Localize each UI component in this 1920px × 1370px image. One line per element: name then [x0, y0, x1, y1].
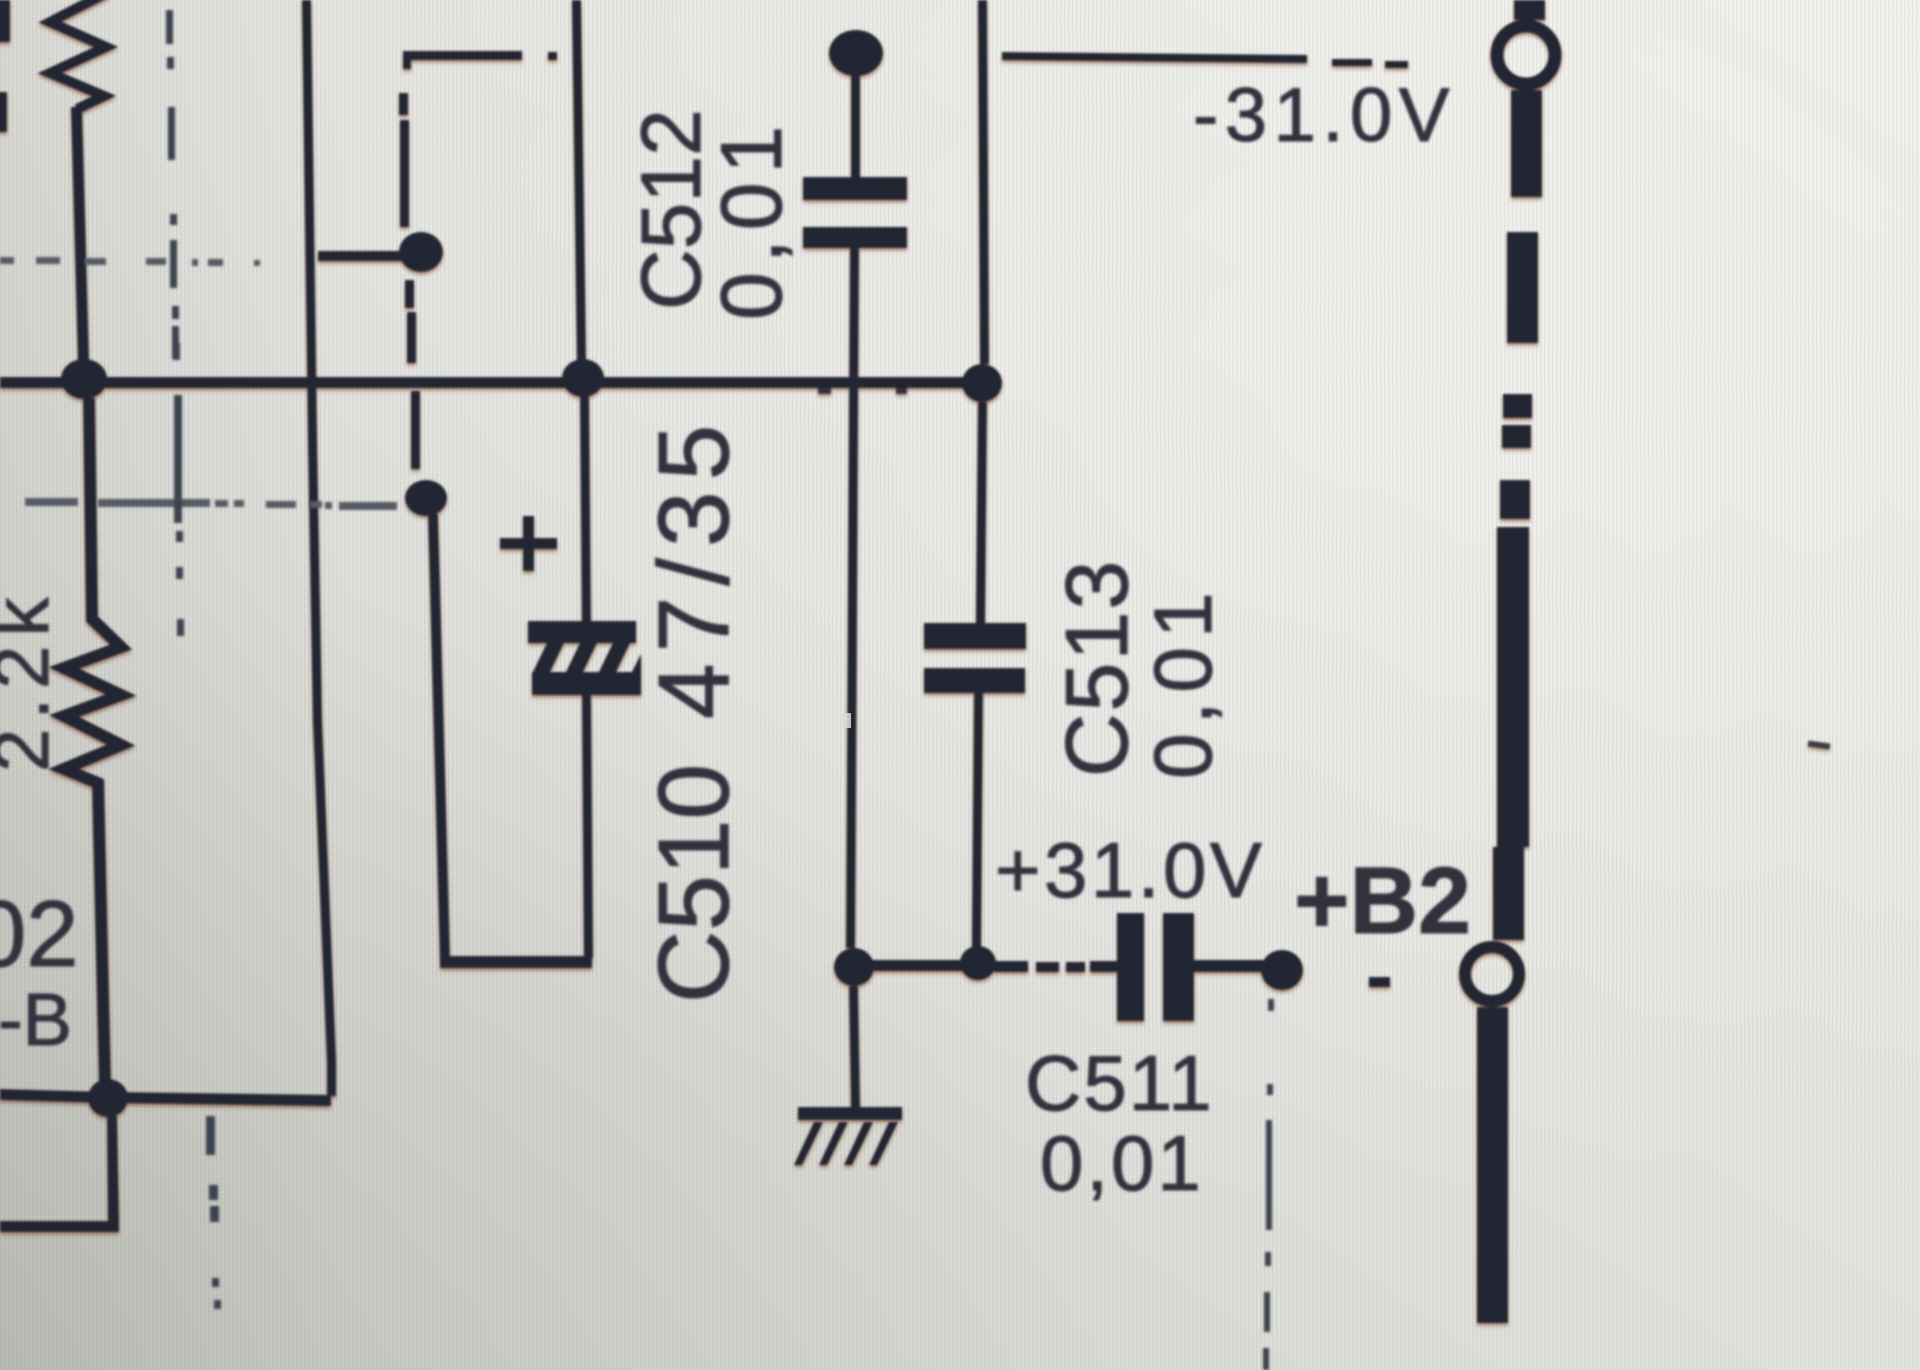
- capacitor C512 plates: [803, 177, 907, 200]
- wire: lead from top-left resistor down to bus junction: [71, 107, 89, 362]
- plus sign of C510: [500, 538, 557, 549]
- wire notch artifact on C512 leg: [842, 713, 851, 728]
- speck tick right side: [1808, 740, 1831, 749]
- resistor R-topleft (partial zigzag): [50, 0, 108, 109]
- wire: small stubs below bus near C512 leg: [818, 383, 831, 394]
- wire: J9 to C512: [851, 74, 860, 178]
- svg-text:2.2k: 2.2k: [0, 589, 65, 772]
- wire: C511 to J10: [1194, 960, 1264, 972]
- node J4: junction dot upper: [399, 232, 443, 272]
- wire: bottom-left horizontal: [0, 1089, 331, 1106]
- label minus tick near +B2: [1369, 977, 1390, 987]
- capacitor C510 hatched plate: [533, 643, 564, 672]
- left-edge clipped glyph fragments: [0, 0, 10, 42]
- dash-dot vertical x~170: [166, 10, 173, 44]
- svg-text:+31.0V: +31.0V: [995, 826, 1265, 914]
- wire: stub into J4 from left: [318, 251, 402, 261]
- dash-dot vertical x~210 (bottom left): [206, 1116, 215, 1155]
- node J8: ground-net junction (C512 leg): [834, 948, 874, 986]
- wire: dashed vertical segments x~405: [399, 93, 408, 115]
- wire: dash-dot corner at top (408,55): [403, 51, 522, 69]
- node J3: junction dot on dashed net: [405, 480, 447, 516]
- wire: J2 down to C510: [580, 395, 591, 623]
- svg-text:02: 02: [0, 881, 79, 986]
- wire: J7 to C511 (broken): [994, 961, 1028, 972]
- wire: J8 to J7: [870, 960, 964, 971]
- dash-dot horizontal y~502: [25, 498, 78, 506]
- svg-text:47/35: 47/35: [638, 414, 750, 719]
- wire: bottom corner horizontal of C510 loop: [440, 956, 592, 968]
- node J9: top dot of C512: [829, 30, 883, 76]
- ground symbol: [849, 986, 860, 1107]
- node J6: bus junction right: [962, 364, 1002, 402]
- node J10: +B2 net endpoint dot: [1261, 950, 1303, 990]
- dash-dot horizontal y~260: [0, 257, 14, 264]
- svg-text:0,01: 0,01: [704, 117, 800, 320]
- wire: below J5 down & left to edge: [0, 1116, 119, 1232]
- capacitor C510 (electrolytic) top plate: [528, 621, 636, 643]
- resistor R 2.2k zigzag: [64, 398, 121, 1082]
- node J5: resistor bottom junction: [88, 1079, 128, 1117]
- svg-text:C511: C511: [1025, 1039, 1214, 1127]
- svg-text:-31.0V: -31.0V: [1193, 73, 1456, 158]
- wire: long vertical line V2: [302, 0, 336, 1096]
- svg-text:0,01: 0,01: [1040, 1119, 1204, 1207]
- dashed vertical below J10 x~1268: [1268, 999, 1274, 1011]
- node J7: ground-net junction (C513 leg): [960, 946, 996, 980]
- wire: vertical line V1 from top edge to J2: [572, 0, 586, 362]
- svg-text:-B: -B: [0, 978, 72, 1061]
- terminal circle +B2: [1465, 947, 1519, 1001]
- svg-text:C513: C513: [1047, 559, 1146, 777]
- wire: C512 down through bus to J8: [846, 248, 859, 948]
- wire: left vertical of C510 loop from J3 down: [428, 514, 450, 960]
- terminal circle top (-31.0V): [1497, 26, 1555, 84]
- capacitor C513 plates: [924, 623, 1026, 649]
- wire: C513 down to J7: [972, 693, 983, 948]
- node J1: bus-left junction dot: [61, 359, 107, 399]
- node J2: bus junction at C510 branch: [562, 359, 604, 397]
- wire: thin top border line right section: [1002, 52, 1307, 63]
- capacitor C511 plates: [1117, 913, 1144, 1021]
- wire: thick right bus segments: [1514, 0, 1545, 20]
- wire: vertical line V3 from top to J6: [978, 0, 989, 364]
- wire: main horizontal bus: [0, 377, 988, 388]
- wire: C510 bottom lead down: [582, 695, 593, 958]
- svg-text:0,01: 0,01: [1138, 583, 1229, 779]
- wire: J6 down to C513: [976, 402, 987, 623]
- svg-text:+B2: +B2: [1294, 848, 1471, 954]
- svg-text:C510: C510: [638, 764, 750, 1003]
